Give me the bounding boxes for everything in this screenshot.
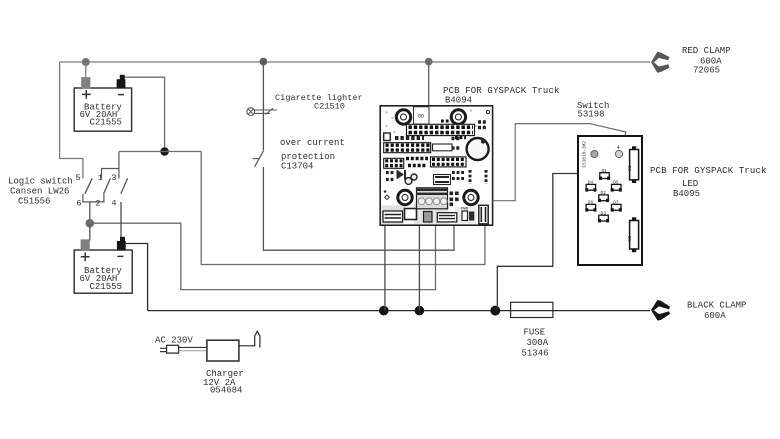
svg-text:3: 3: [111, 173, 116, 183]
AC mains label: [155, 335, 193, 345]
logic switch label: [8, 177, 73, 207]
over current protection label: [280, 138, 345, 172]
AC plug prongs: [160, 348, 167, 351]
switch label: [577, 101, 609, 120]
svg-text:FUSE: FUSE: [524, 327, 546, 337]
SMD pad cluster center on PCB B4094: [452, 173, 465, 179]
svg-text:C51010-3M2: C51010-3M2: [583, 141, 588, 168]
PCB B4094 mounting hole bottom-left: [398, 190, 412, 204]
black clamp symbol: [651, 300, 670, 321]
charger output lead: [239, 331, 260, 347]
LED D7 on PCB B4095: [611, 200, 622, 212]
svg-text:72065: 72065: [693, 66, 720, 76]
svg-text:6: 6: [76, 199, 81, 209]
over current protection breaker symbol: [253, 151, 264, 167]
wire bottom bus to fuse: [148, 310, 511, 312]
svg-text:PCB FOR GYSPACK Truck: PCB FOR GYSPACK Truck: [650, 166, 767, 176]
logic switch pole A blade pins 5-6: [85, 178, 92, 194]
PCB B4094 mounting hole top-left: [396, 110, 410, 124]
svg-text:over current: over current: [280, 138, 345, 148]
AC plug body: [167, 345, 179, 353]
battery B1 minus sign: [118, 94, 124, 96]
battery B1 value label: [80, 103, 123, 128]
wire PCB B4094 right side to switch on PCB B4095: [493, 124, 626, 201]
SMD pads beside connector C1 on PCB B4094: [450, 192, 459, 207]
bottom component B3 on PCB B4094: [424, 212, 433, 223]
svg-text:D4: D4: [588, 180, 594, 186]
node cigarette lighter junction: [260, 58, 268, 66]
battery B2 positive terminal: [81, 239, 90, 250]
PCB U1 B4094 board: [380, 106, 492, 225]
switch S1 on PCB B4095: [627, 146, 639, 183]
test point diamond on PCB B4094: [384, 190, 390, 199]
node bus junction 2: [415, 306, 425, 316]
svg-text:AC 230V: AC 230V: [155, 335, 193, 345]
svg-text:51346: 51346: [522, 348, 549, 358]
svg-text:D3: D3: [601, 211, 607, 217]
node bus junction 1: [379, 306, 389, 316]
wire node B down to battery B2 plus: [89, 223, 91, 240]
svg-text:C21510: C21510: [314, 101, 345, 111]
switch S2 on PCB B4095: [627, 217, 639, 252]
LED D1 on PCB B4095: [599, 168, 610, 180]
wire cigarette lighter branch down to PCB B4094: [263, 62, 454, 251]
svg-text:D2: D2: [601, 190, 607, 196]
wire battery1 minus to node A: [125, 77, 165, 151]
logic switch pin 3 label: [111, 173, 116, 183]
SMD pads right lower on PCB B4094: [470, 170, 486, 184]
logic switch pole C blade pins 3-4: [121, 178, 128, 194]
node A junction of pins 1-3 net: [160, 147, 169, 156]
red clamp symbol: [651, 52, 670, 73]
svg-text:D7: D7: [613, 200, 619, 206]
logic switch pin 1 label: [98, 173, 103, 183]
svg-text:PWR: PWR: [461, 208, 469, 212]
PCB B4094 label: [443, 86, 560, 106]
svg-text:Logic switch: Logic switch: [8, 177, 73, 187]
wire fuse to black clamp: [511, 310, 650, 312]
logic switch pin 2 label: [95, 199, 100, 209]
logic switch pole B blade pins 1-2: [104, 178, 111, 194]
component BD box on PCB B4094: [414, 107, 430, 124]
connector header H4 on PCB B4094: [431, 157, 467, 167]
wire left rail from top bus down to switch pin 5: [60, 62, 83, 179]
wire PCB B4094 pin 1 to bus: [384, 202, 386, 311]
tiny hole top right corner on PCB B4094: [486, 110, 489, 113]
LED D5 on PCB B4095: [611, 180, 622, 192]
SMD pad cluster mid-left on PCB B4094: [406, 121, 466, 166]
svg-text:PCB FOR GYSPACK Truck: PCB FOR GYSPACK Truck: [443, 86, 560, 96]
wire top bus from battery1 plus to red clamp: [60, 61, 650, 63]
PCB B4095 label: [650, 166, 767, 199]
svg-text:5: 5: [76, 173, 81, 183]
wire battery B2 minus to bottom bus: [126, 244, 148, 311]
logic switch pins 1-3 top bracket: [102, 152, 119, 179]
SMD pad cluster under H1 on PCB B4094: [395, 136, 424, 140]
svg-text:C51556: C51556: [18, 197, 50, 207]
resistor block R1 on PCB B4094: [433, 144, 453, 151]
svg-text:-: -: [593, 145, 596, 151]
svg-text:1: 1: [98, 173, 103, 183]
svg-text:D1: D1: [602, 168, 608, 174]
connector header H3 on PCB B4094: [384, 158, 404, 168]
battery B1 positive terminal: [81, 77, 90, 88]
node PCB top junction: [425, 58, 433, 66]
svg-text:B4094: B4094: [445, 95, 472, 105]
battery B2 box: [74, 250, 132, 293]
svg-text:S2: S2: [627, 235, 633, 241]
wire LED PCB pad to bottom bus node 3: [497, 154, 594, 311]
capacitor C on PCB B4094: [467, 138, 489, 160]
battery B1 box: [74, 88, 131, 131]
charger label: [203, 369, 244, 396]
battery B2 plus sign: [81, 252, 90, 261]
wire from node A down and right to PCB B4094 pin: [201, 152, 485, 265]
svg-text:B4095: B4095: [673, 189, 700, 199]
battery B2 value label: [80, 266, 123, 292]
connector header H2 on PCB B4094: [384, 143, 431, 153]
LED D6 on PCB B4095: [585, 200, 596, 212]
svg-text:4: 4: [111, 199, 116, 209]
charger body: [207, 340, 239, 361]
pad hole right on PCB B4095: [615, 145, 622, 158]
SMD pad cluster right edge on PCB B4094: [478, 122, 487, 128]
battery B2 minus sign: [117, 255, 123, 257]
logic switch pin 5 label: [76, 173, 81, 183]
wire switch pin 4 down to battery B2 minus: [120, 202, 122, 239]
bottom component B2 on PCB B4094: [405, 209, 417, 220]
LED D3 on PCB B4095: [598, 211, 609, 223]
svg-text:C21555: C21555: [90, 282, 122, 292]
svg-text:protection: protection: [281, 152, 335, 162]
svg-text:53198: 53198: [578, 109, 605, 119]
cigarette lighter label: [275, 93, 363, 112]
cigarette lighter symbol: [247, 108, 277, 116]
battery B1 plus sign: [82, 90, 91, 99]
logic switch pin 6 label: [76, 199, 81, 209]
logic switch pins 6-2 bottom bracket: [83, 194, 104, 202]
battery B1 negative terminal: [117, 75, 126, 89]
PCB B4094 mounting hole bottom-right: [464, 190, 478, 204]
node battery1 plus junction: [82, 58, 90, 79]
small framed component on PCB B4094: [384, 133, 391, 141]
svg-text:BLACK CLAMP: BLACK CLAMP: [687, 300, 746, 310]
svg-text:C13704: C13704: [281, 162, 313, 172]
diode cluster on PCB B4094: [386, 170, 405, 180]
svg-text:8D: 8D: [418, 114, 424, 120]
svg-text:C21555: C21555: [90, 118, 122, 128]
resistor block R2 on PCB B4094: [434, 175, 451, 185]
wire top bus down into PCB B4094: [428, 62, 430, 200]
main connector block C1 on PCB B4094: [417, 188, 448, 209]
transistor pair Q on PCB B4094: [405, 174, 417, 184]
red clamp label: [682, 46, 731, 76]
node B junction above battery B2: [86, 219, 95, 228]
svg-text:2: 2: [95, 199, 100, 209]
svg-text:4: 4: [617, 145, 620, 151]
svg-text:LED: LED: [682, 179, 698, 189]
bottom connector B1 on PCB B4094: [383, 211, 403, 222]
pad hole left on PCB B4095: [591, 145, 598, 158]
svg-text:600A: 600A: [704, 311, 726, 321]
LED D2 on PCB B4095: [598, 190, 609, 202]
LED D4 on PCB B4095: [585, 180, 596, 192]
svg-text:D5: D5: [613, 180, 619, 186]
battery B2 negative terminal: [117, 237, 126, 251]
SMD pads left of capacitor on PCB B4094: [452, 139, 462, 149]
svg-text:Cansen LW26: Cansen LW26: [10, 187, 69, 197]
fuse F1: [511, 302, 553, 317]
svg-text:RED CLAMP: RED CLAMP: [682, 46, 731, 56]
svg-text:300A: 300A: [527, 338, 549, 348]
svg-text:D6: D6: [588, 200, 594, 206]
bottom connector B4 on PCB B4094: [437, 213, 457, 222]
fuse label: [522, 327, 549, 358]
PCB B4094 mounting hole top-right: [451, 110, 465, 124]
svg-text:054684: 054684: [210, 386, 242, 396]
svg-text:S1: S1: [627, 165, 633, 171]
black clamp label: [687, 300, 746, 321]
wire PCB B4094 pin 2 to bus: [418, 202, 420, 311]
PCB U2 B4095 LED board: [578, 136, 642, 265]
bottom components B5 on PCB B4094: [461, 208, 474, 221]
wire pins 6-2 down to node B: [89, 202, 91, 223]
connector header H1 on PCB B4094: [407, 124, 475, 135]
charger cord: [179, 347, 207, 350]
logic switch pin 4 label: [111, 199, 116, 209]
wire pins 1-3 net horizontal: [119, 151, 201, 153]
node bus junction 3: [490, 306, 500, 316]
bottom connector B6 on PCB B4094: [479, 205, 488, 224]
wire node B right and down to PCB B4094 pin: [90, 222, 436, 290]
